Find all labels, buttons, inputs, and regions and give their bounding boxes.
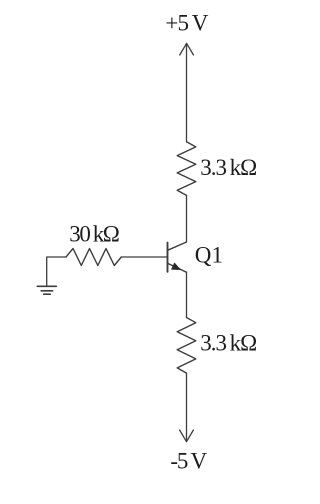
wire R1 to collector [186,195,188,242]
ground [37,286,56,294]
svg-text:-5 V: -5 V [170,448,207,473]
resistor 30k (base) [66,249,121,266]
resistor R1 3.3k (top) [177,142,196,196]
-5V arrow [180,430,194,442]
wire emitter to R2 [186,272,188,317]
svg-text:3.3 kΩ: 3.3 kΩ [200,331,256,356]
svg-text:3.3 kΩ: 3.3 kΩ [200,155,256,180]
+5V arrow [180,43,194,55]
transistor Q1 [168,242,187,272]
svg-text:+5 V: +5 V [165,11,208,36]
base wire from resistor to Q1 base [121,256,167,258]
resistor R2 3.3k (bottom) [177,318,196,374]
wire 30k to ground corner [47,257,66,286]
wire R2 to -5V arrow [186,373,188,441]
svg-text:30 kΩ: 30 kΩ [69,222,119,247]
svg-text:Q1: Q1 [195,243,224,268]
wire from +5V arrow to R1 [186,44,188,142]
